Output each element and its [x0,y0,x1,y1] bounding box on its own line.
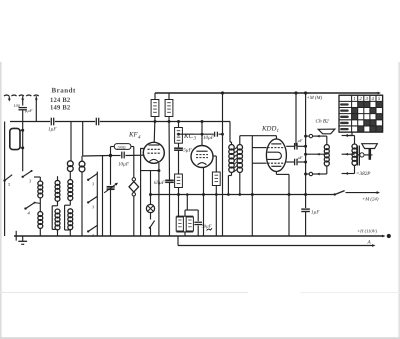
svg-text:Ch B2: Ch B2 [316,119,330,125]
svg-text:Brandt: Brandt [52,86,77,94]
svg-text:+M (M): +M (M) [307,95,323,101]
svg-text:50µF: 50µF [202,224,212,229]
svg-text:µF: µF [298,155,303,160]
svg-text:10µF: 10µF [203,135,215,141]
svg-text:100: 100 [14,103,21,108]
svg-text:1µF: 1µF [311,210,320,216]
svg-text:65µF: 65µF [154,180,166,186]
svg-text:200Ω: 200Ω [117,145,126,149]
svg-text:µF: µF [298,138,303,143]
svg-text:KF: KF [128,132,139,139]
svg-text:+H (110V): +H (110V) [357,229,377,234]
svg-text:149 B2: 149 B2 [50,105,71,112]
svg-text:1: 1 [277,128,280,134]
svg-text:KDD: KDD [261,126,276,133]
svg-text:µµF: µµF [25,108,33,113]
svg-text:+M (24): +M (24) [362,196,379,202]
svg-text:10µF: 10µF [118,162,130,168]
svg-text:=382P: =382P [356,171,371,177]
svg-text:124 B2: 124 B2 [50,97,71,104]
svg-text:1µF: 1µF [48,127,57,133]
